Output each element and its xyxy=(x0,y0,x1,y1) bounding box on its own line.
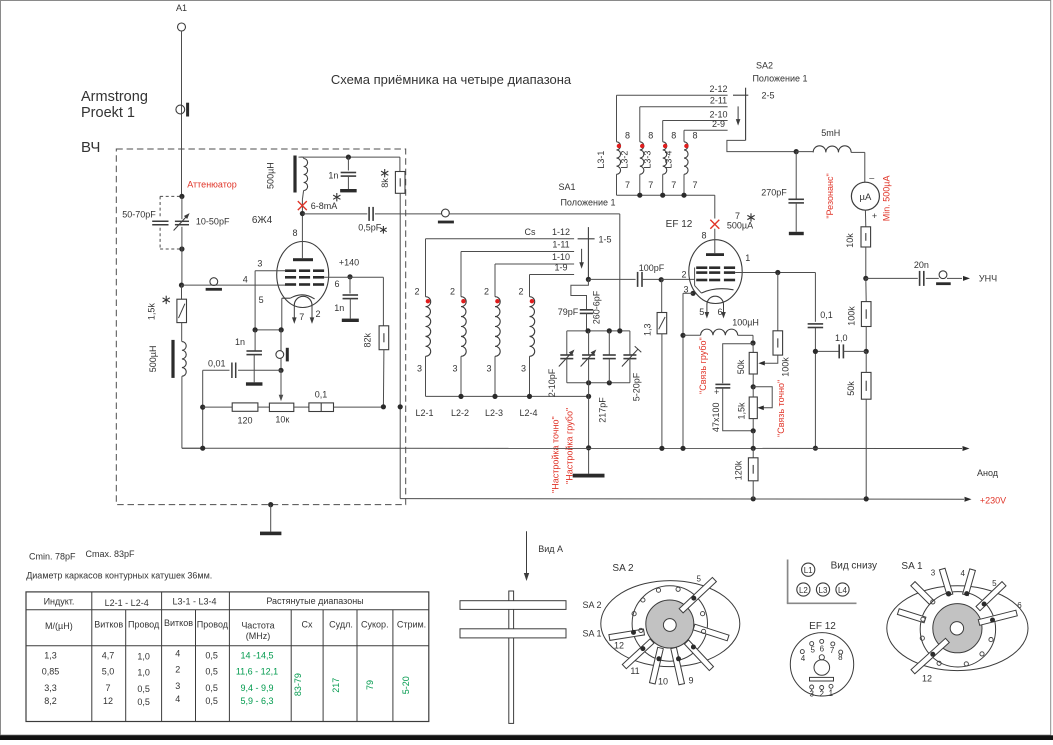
svg-text:100µH: 100µH xyxy=(732,318,759,328)
svg-text:+: + xyxy=(872,211,877,221)
wire jog to 79pF xyxy=(571,279,589,309)
connector J5 output xyxy=(936,271,951,285)
svg-text:500µH: 500µH xyxy=(148,346,158,373)
connector J2 xyxy=(206,278,222,291)
inductor 100µH xyxy=(683,318,759,344)
svg-text:7: 7 xyxy=(735,211,740,221)
capacitor 1,0 xyxy=(815,333,866,358)
label socket pin 8 xyxy=(838,653,843,662)
label SA2 lug 11 xyxy=(630,666,639,676)
svg-text:+: + xyxy=(714,387,719,397)
inductor L3-4 xyxy=(664,130,698,195)
variable capacitor 260-6pF xyxy=(581,331,597,383)
svg-text:4: 4 xyxy=(960,569,965,578)
capacitor 0,1 block xyxy=(294,389,384,411)
svg-text:1,0: 1,0 xyxy=(137,652,150,662)
svg-text:Положение 1: Положение 1 xyxy=(752,74,807,84)
resistor 1,3 xyxy=(643,280,667,449)
svg-text:8: 8 xyxy=(292,228,297,238)
capacitor 50-70pF xyxy=(122,210,168,225)
potentiometer 50k xyxy=(736,343,757,387)
svg-text:A1: A1 xyxy=(176,3,187,13)
label project title xyxy=(81,89,148,121)
svg-text:SA1: SA1 xyxy=(558,182,575,192)
svg-text:7: 7 xyxy=(648,180,653,190)
svg-text:"Настройка точно": "Настройка точно" xyxy=(550,416,560,493)
svg-text:7: 7 xyxy=(692,180,697,190)
svg-text:Сх: Сх xyxy=(302,620,313,630)
svg-text:"Связь точно": "Связь точно" xyxy=(776,380,786,437)
svg-text:(MHz): (MHz) xyxy=(246,631,271,641)
svg-text:Вид А: Вид А xyxy=(538,544,563,554)
label socket pin 6 xyxy=(820,645,825,654)
switch SA1 bottom view xyxy=(887,568,1028,674)
svg-text:EF 12: EF 12 xyxy=(666,219,693,230)
meter PA1 µA xyxy=(825,173,892,222)
svg-text:100k: 100k xyxy=(780,357,790,377)
svg-text:3: 3 xyxy=(486,364,491,374)
ground shield xyxy=(260,502,281,535)
wafer board SA1 xyxy=(460,628,602,638)
junction plate node xyxy=(300,211,305,216)
wire contact line 2-10 xyxy=(663,109,728,120)
svg-text:217: 217 xyxy=(331,678,341,693)
capacitor 0,1 anode xyxy=(808,310,833,451)
svg-text:7: 7 xyxy=(830,646,835,655)
coil position L3 xyxy=(816,583,829,596)
junction grid node V2 xyxy=(659,277,664,282)
svg-text:47x100: 47x100 xyxy=(711,403,721,433)
switch SA1 rotor xyxy=(578,227,612,279)
junction coupling node xyxy=(750,340,755,345)
svg-text:0,1: 0,1 xyxy=(315,389,328,399)
svg-text:Стрим.: Стрим. xyxy=(397,620,426,630)
svg-text:500µA: 500µA xyxy=(727,221,753,231)
wire contact line 1-12 xyxy=(426,227,575,239)
capacitor 0,01 xyxy=(200,358,281,448)
svg-text:8: 8 xyxy=(838,653,843,662)
svg-text:Схема приёмника на четыре диап: Схема приёмника на четыре диапазона xyxy=(331,72,572,87)
wire grid pin 3 xyxy=(255,271,285,330)
svg-text:12: 12 xyxy=(614,641,624,651)
label coil diameter note xyxy=(26,571,212,581)
svg-text:2-11: 2-11 xyxy=(710,96,727,106)
svg-text:50-70pF: 50-70pF xyxy=(122,210,156,220)
view frame Вид снизу xyxy=(787,560,877,604)
svg-text:L2-1: L2-1 xyxy=(415,408,433,418)
label pin 8 V2 xyxy=(701,231,706,241)
svg-text:270pF: 270pF xyxy=(761,188,787,198)
label 6Ж4 xyxy=(252,215,273,226)
svg-text:8: 8 xyxy=(648,131,653,141)
svg-text:12: 12 xyxy=(103,696,113,706)
svg-text:0,5: 0,5 xyxy=(205,696,218,706)
capacitor 100pF xyxy=(588,263,664,287)
svg-text:L3-3: L3-3 xyxy=(642,151,652,169)
svg-text:Cmax. 83pF: Cmax. 83pF xyxy=(86,549,136,559)
svg-text:3: 3 xyxy=(683,285,688,295)
svg-text:1-10: 1-10 xyxy=(552,252,570,262)
junction divider node xyxy=(864,349,869,354)
label SA 1 view xyxy=(901,561,923,572)
label SA1 lug 12 xyxy=(922,674,932,684)
label pin 8 V1 xyxy=(292,228,297,238)
svg-text:120: 120 xyxy=(237,415,252,425)
svg-text:Диаметр каркасов контурных кат: Диаметр каркасов контурных катушек 36мм. xyxy=(26,571,212,581)
svg-text:12: 12 xyxy=(922,674,932,684)
wire L2 ground bus xyxy=(426,394,592,399)
resistor 82k xyxy=(363,277,389,409)
resistor 120k xyxy=(734,448,759,499)
wire anode bus xyxy=(182,446,999,479)
svg-text:10-50pF: 10-50pF xyxy=(196,216,230,226)
svg-text:+230V: +230V xyxy=(980,495,1006,505)
measure point 500µA xyxy=(710,211,754,231)
svg-text:6: 6 xyxy=(820,645,825,654)
svg-text:1n: 1n xyxy=(235,337,245,347)
wire screen pin 6 xyxy=(324,257,383,289)
svg-text:0,5: 0,5 xyxy=(205,651,218,661)
svg-text:9,4 - 9,9: 9,4 - 9,9 xyxy=(240,683,273,693)
tube V1 6Ж4 xyxy=(277,214,329,308)
svg-text:0,5pF: 0,5pF xyxy=(358,222,382,232)
svg-text:50k: 50k xyxy=(736,359,746,374)
label SA1 lug 6 xyxy=(1017,601,1022,610)
svg-text:5,9 - 6,3: 5,9 - 6,3 xyxy=(240,696,273,706)
svg-text:260-6pF: 260-6pF xyxy=(592,290,602,324)
svg-text:SA 2: SA 2 xyxy=(612,563,634,574)
svg-text:8: 8 xyxy=(671,131,676,141)
svg-text:µA: µA xyxy=(859,192,871,203)
switch SA2 bottom view xyxy=(601,577,740,684)
svg-text:ВЧ: ВЧ xyxy=(81,139,100,156)
svg-text:6Ж4: 6Ж4 xyxy=(252,215,273,226)
label SA1 xyxy=(558,182,615,208)
svg-text:5mH: 5mH xyxy=(821,128,840,138)
svg-text:+140: +140 xyxy=(339,257,359,267)
svg-text:6: 6 xyxy=(334,279,339,289)
svg-text:3: 3 xyxy=(175,681,180,691)
label schematic title xyxy=(331,72,572,87)
svg-text:6: 6 xyxy=(1017,601,1022,610)
svg-text:0,85: 0,85 xyxy=(42,667,60,677)
svg-text:L3-4: L3-4 xyxy=(664,151,674,169)
svg-text:10: 10 xyxy=(658,677,668,687)
wire anode V2 xyxy=(735,270,815,322)
table header row1 xyxy=(44,596,364,608)
pin 6 heater arrow V2 xyxy=(717,305,725,319)
inductor L2-1 xyxy=(414,239,433,418)
svg-text:4: 4 xyxy=(801,654,806,663)
svg-text:EF 12: EF 12 xyxy=(809,621,836,632)
view arrow Вид А xyxy=(524,531,563,581)
svg-text:6-8mA: 6-8mA xyxy=(311,201,338,211)
svg-text:L3-1 - L3-4: L3-1 - L3-4 xyxy=(172,597,216,607)
svg-text:2: 2 xyxy=(819,689,824,698)
wire contact line 2-12 xyxy=(617,84,728,95)
svg-text:Анод: Анод xyxy=(977,468,999,478)
svg-text:2: 2 xyxy=(414,287,419,297)
junction AGC node xyxy=(863,276,868,281)
capacitor 1n plate bypass xyxy=(328,155,356,193)
wire contact line 2-9 xyxy=(684,119,728,130)
svg-text:79: 79 xyxy=(365,680,375,690)
svg-text:Armstrong: Armstrong xyxy=(81,89,148,105)
svg-text:5,0: 5,0 xyxy=(102,667,115,677)
svg-text:1: 1 xyxy=(829,689,834,698)
resistor 8k xyxy=(380,157,405,499)
svg-text:3: 3 xyxy=(417,364,422,374)
wire cathode pin 5 xyxy=(253,298,284,332)
svg-text:0,5: 0,5 xyxy=(137,697,150,707)
svg-text:Min. 500µA: Min. 500µA xyxy=(882,176,892,222)
svg-text:L3-1: L3-1 xyxy=(596,151,606,169)
svg-text:5-20pF: 5-20pF xyxy=(632,372,642,401)
svg-text:2-5: 2-5 xyxy=(761,90,774,100)
label SA 2 view xyxy=(612,563,634,574)
svg-text:3: 3 xyxy=(452,364,457,374)
svg-text:2: 2 xyxy=(681,270,686,280)
node A1 antenna terminal xyxy=(176,3,187,31)
capacitor 47x100 electrolytic xyxy=(711,344,753,432)
svg-text:3: 3 xyxy=(931,568,936,577)
svg-text:L3: L3 xyxy=(819,586,828,595)
resistor 120 xyxy=(203,403,258,425)
svg-text:М/(µН): М/(µН) xyxy=(45,621,73,631)
label socket pin 3 xyxy=(809,690,814,699)
inductor L2-3 xyxy=(484,264,503,418)
svg-text:1,0: 1,0 xyxy=(835,333,848,343)
svg-text:Провод: Провод xyxy=(128,620,160,630)
svg-text:Растянутые диапазоны: Растянутые диапазоны xyxy=(266,596,363,606)
label Cmin Cmax xyxy=(29,549,135,562)
svg-text:100k: 100k xyxy=(847,306,857,326)
coil position L1 xyxy=(802,563,815,576)
label RF section ВЧ xyxy=(81,139,100,156)
svg-text:7: 7 xyxy=(671,180,676,190)
capacitor 217pF xyxy=(597,331,616,423)
resistor 100k right xyxy=(847,278,871,351)
wire contact line 1-9 xyxy=(530,263,575,275)
svg-text:79pF: 79pF xyxy=(558,307,579,317)
capacitor 1n cathode xyxy=(235,330,262,386)
svg-text:2: 2 xyxy=(175,665,180,675)
wire to УНЧ xyxy=(947,274,997,284)
capacitor 1n screen bypass xyxy=(334,277,359,322)
svg-text:Cs: Cs xyxy=(525,227,536,237)
svg-text:10к: 10к xyxy=(275,414,289,424)
svg-text:7: 7 xyxy=(299,312,304,322)
label SA2 lug 5 xyxy=(696,574,701,583)
svg-text:7: 7 xyxy=(625,180,630,190)
coil position L2 xyxy=(797,583,810,596)
svg-text:L2-3: L2-3 xyxy=(485,408,503,418)
wire cathode pin 3 V2 xyxy=(680,285,695,449)
svg-text:Провод: Провод xyxy=(197,620,229,630)
pin 7 heater arrow V1 xyxy=(292,305,304,324)
table data rows xyxy=(42,649,278,708)
svg-text:100pF: 100pF xyxy=(639,263,665,273)
pin 2 heater arrow V1 xyxy=(310,305,321,324)
svg-text:Положение 1: Положение 1 xyxy=(560,198,615,208)
svg-text:3: 3 xyxy=(809,690,814,699)
wire tuning bus top xyxy=(567,328,630,333)
svg-text:50k: 50k xyxy=(846,381,856,396)
svg-text:11: 11 xyxy=(630,666,639,676)
inductor L2-2 xyxy=(450,252,469,419)
label Настройка грубо xyxy=(564,408,574,484)
inductor 5mH xyxy=(796,128,865,182)
svg-text:5: 5 xyxy=(696,574,701,583)
capacitor 0,5pF xyxy=(302,207,441,234)
label EF 12 socket xyxy=(809,621,836,632)
wire SA2 to meter xyxy=(727,140,796,151)
svg-text:14 -14,5: 14 -14,5 xyxy=(240,651,273,661)
label SA1 lug 5 xyxy=(992,579,997,588)
label SA2 lug 9 xyxy=(688,675,693,685)
svg-text:Витков: Витков xyxy=(94,620,123,630)
svg-text:Proekt 1: Proekt 1 xyxy=(81,105,135,121)
svg-text:0,1: 0,1 xyxy=(820,310,833,320)
svg-text:5: 5 xyxy=(992,579,997,588)
potentiometer 1,5k xyxy=(737,387,773,449)
resistor 10k xyxy=(845,210,870,278)
svg-text:120k: 120k xyxy=(734,460,744,480)
label Cs xyxy=(525,227,536,237)
svg-text:SA 2: SA 2 xyxy=(583,600,602,610)
wire to 0,01 node xyxy=(278,359,283,373)
svg-text:2-10pF: 2-10pF xyxy=(547,368,557,397)
svg-text:3: 3 xyxy=(257,259,262,269)
svg-text:20n: 20n xyxy=(914,260,929,270)
wire contact line 2-11 xyxy=(640,96,728,107)
svg-text:4,7: 4,7 xyxy=(102,651,115,661)
svg-text:8: 8 xyxy=(692,131,697,141)
svg-text:0,5: 0,5 xyxy=(205,683,218,693)
svg-text:1n: 1n xyxy=(328,171,338,181)
svg-text:2: 2 xyxy=(518,287,523,297)
potentiometer wiper arrow 10к xyxy=(279,370,284,401)
svg-text:4: 4 xyxy=(243,274,248,284)
label socket pin 2 xyxy=(819,689,824,698)
svg-text:Cmin. 78pF: Cmin. 78pF xyxy=(29,552,76,562)
svg-text:L2: L2 xyxy=(799,586,808,595)
svg-text:2: 2 xyxy=(484,287,489,297)
svg-text:"Резонанс": "Резонанс" xyxy=(825,173,835,218)
svg-text:3,3: 3,3 xyxy=(44,683,57,693)
socket EF 12 bottom view xyxy=(790,633,853,696)
svg-text:2-12: 2-12 xyxy=(709,84,727,94)
attenuator dashed branch xyxy=(160,196,182,249)
label pin 1 V2 xyxy=(745,253,750,263)
svg-text:7: 7 xyxy=(105,683,110,693)
svg-text:5: 5 xyxy=(699,307,704,317)
wire tuning bus bottom xyxy=(567,380,630,385)
svg-text:5: 5 xyxy=(810,645,815,654)
wire coupling to tuner xyxy=(449,214,620,331)
svg-text:L1: L1 xyxy=(804,566,813,575)
svg-text:1,3: 1,3 xyxy=(44,651,57,661)
svg-text:5: 5 xyxy=(259,295,264,305)
svg-text:1-12: 1-12 xyxy=(552,227,570,237)
wire antenna through attenuator xyxy=(181,196,183,285)
resistor 50k right xyxy=(846,351,871,498)
variable capacitor 2-10pF xyxy=(547,331,575,397)
svg-text:2: 2 xyxy=(315,309,320,319)
capacitor 270pF xyxy=(761,149,804,235)
svg-text:2-10: 2-10 xyxy=(709,109,727,119)
inductor L2-4 xyxy=(518,275,537,419)
svg-text:SA 1: SA 1 xyxy=(901,561,923,572)
svg-text:1-5: 1-5 xyxy=(598,234,611,244)
svg-text:11,6 - 12,1: 11,6 - 12,1 xyxy=(236,667,278,677)
svg-text:10k: 10k xyxy=(845,233,855,248)
svg-text:Судл.: Судл. xyxy=(329,620,353,630)
shield box dashed xyxy=(116,149,405,505)
wire grid to V2 xyxy=(661,268,701,294)
junction attenuator bottom xyxy=(179,246,184,251)
connector J4 xyxy=(438,209,454,223)
label SA1 lug 4 xyxy=(960,569,965,578)
label Аттенюатор xyxy=(187,180,237,190)
label EF 12 xyxy=(666,219,693,230)
junction attenuator top xyxy=(179,194,184,199)
svg-text:4: 4 xyxy=(175,694,180,704)
svg-text:217pF: 217pF xyxy=(597,397,607,423)
svg-text:6: 6 xyxy=(717,307,722,317)
table header row2 xyxy=(45,618,426,641)
svg-text:УНЧ: УНЧ xyxy=(979,274,997,284)
svg-text:Аттенюатор: Аттенюатор xyxy=(187,180,237,190)
coil position L4 xyxy=(836,583,849,596)
svg-text:8: 8 xyxy=(701,231,706,241)
label socket pin 1 xyxy=(829,689,834,698)
label SA2 lug 12 xyxy=(614,641,624,651)
svg-text:Индукт.: Индукт. xyxy=(44,597,75,607)
resistor 1,5k xyxy=(147,285,187,323)
svg-text:5-20: 5-20 xyxy=(401,676,411,694)
svg-text:–: – xyxy=(869,173,874,183)
wire antenna lead-in xyxy=(181,31,183,196)
svg-text:3: 3 xyxy=(521,364,526,374)
svg-text:4: 4 xyxy=(175,649,180,659)
label Связь грубо xyxy=(698,337,708,394)
svg-text:"Связь грубо": "Связь грубо" xyxy=(698,337,708,394)
svg-text:L2-2: L2-2 xyxy=(451,408,469,418)
svg-text:L3-2: L3-2 xyxy=(620,151,630,169)
svg-text:Сукор.: Сукор. xyxy=(361,620,389,630)
tube V2 EF12 xyxy=(689,229,742,305)
label pin 5 V1 xyxy=(259,295,264,305)
variable capacitor 5-20pF xyxy=(622,331,642,401)
wafer board SA2 xyxy=(460,600,602,610)
svg-text:83-79: 83-79 xyxy=(293,673,303,696)
table band values xyxy=(293,673,411,696)
svg-text:1,5k: 1,5k xyxy=(147,303,157,321)
inductor L3-3 xyxy=(642,121,676,196)
svg-text:1,5k: 1,5k xyxy=(737,402,747,420)
inductor L3-2 xyxy=(620,107,654,195)
svg-text:9: 9 xyxy=(688,675,693,685)
measure point 6-8mA xyxy=(298,193,341,211)
label pin 3 V1 xyxy=(257,259,262,269)
pin 5 heater arrow V2 xyxy=(699,305,709,319)
wire grid pin 4 xyxy=(182,274,286,285)
label Связь точно xyxy=(776,380,786,437)
wire L3 bus to anode xyxy=(617,193,715,219)
svg-text:2-9: 2-9 xyxy=(712,119,725,129)
label socket pin 4 xyxy=(801,654,806,663)
